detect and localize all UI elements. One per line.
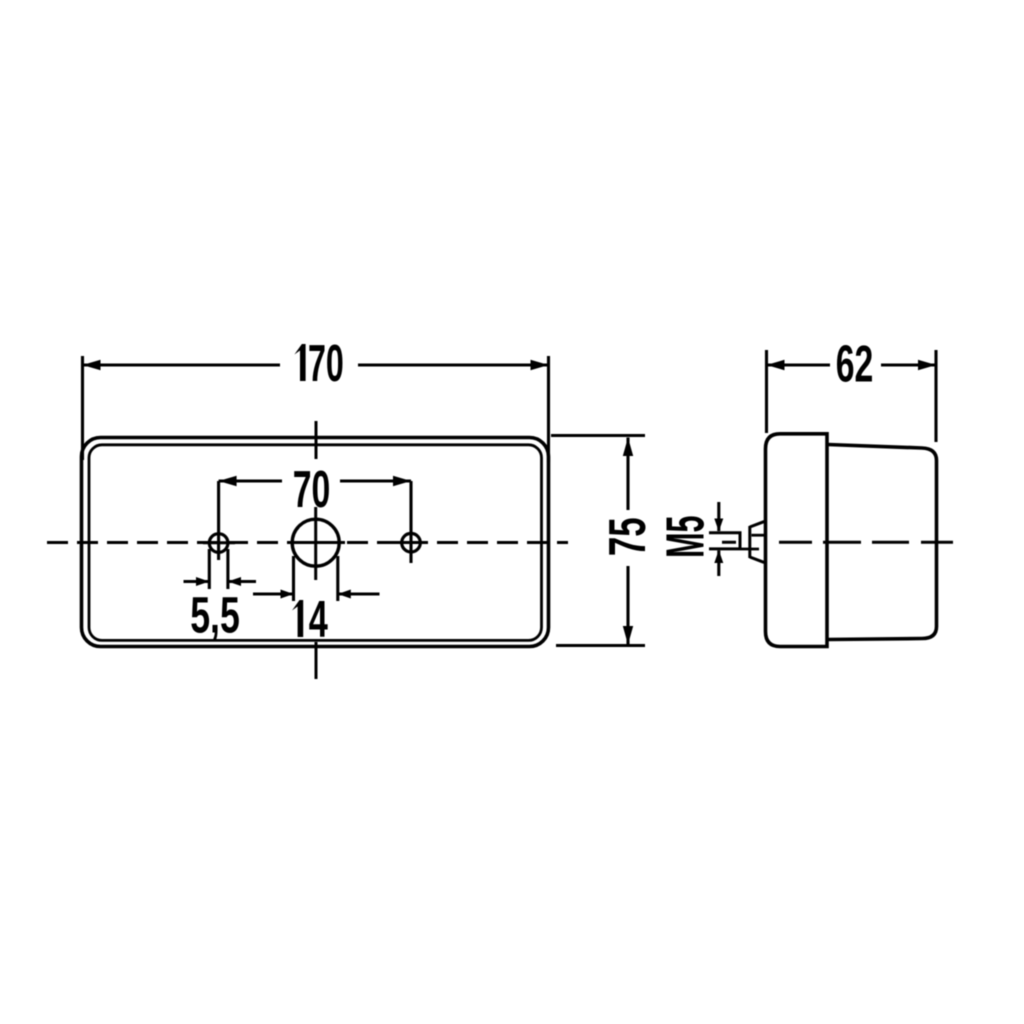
dimension 14 arrow left: [281, 590, 294, 599]
dimension 75 line: [626, 438, 629, 645]
dimension 75 arrow bottom: [623, 626, 633, 645]
center hole circle (14): [292, 519, 339, 566]
left hole cross: [203, 541, 235, 544]
dimension 5,5 line left: [184, 580, 210, 583]
dimension 170 extension line right: [547, 356, 550, 462]
dimension M5 arrow top (down): [714, 519, 723, 532]
dimension 14 line right: [338, 592, 380, 595]
right hole cross: [396, 541, 427, 544]
dimension 5,5 extension line left: [208, 549, 211, 589]
dimension 70 arrow right: [393, 476, 411, 486]
dimension M5 arrow bottom (up): [714, 550, 723, 563]
stud flange left bar: [748, 526, 751, 558]
lamp front view outer outline: [82, 438, 549, 647]
dimension 75 extension line bottom: [556, 644, 645, 647]
stud flange inner line bottom: [742, 548, 760, 551]
dimension 62 extension line right: [934, 350, 937, 442]
right mounting hole: [402, 533, 421, 552]
dimension 75 extension line top: [551, 434, 645, 437]
dimension 5,5 extension line right: [226, 549, 229, 589]
dimension 62 extension line left: [765, 350, 768, 433]
svg-text:70: 70: [293, 461, 331, 519]
dimension 170 arrow left: [83, 360, 101, 370]
side view lens outline: [766, 434, 828, 647]
dimension 170 text: [294, 344, 305, 381]
dimension 14 extension line left: [292, 556, 295, 601]
dimension M5 line bottom: [717, 551, 720, 577]
dimension 62 arrow left: [767, 360, 785, 370]
dimension 70 line: [219, 479, 411, 482]
center hole cross lines: [287, 507, 345, 580]
dimension 5,5 line right: [228, 580, 256, 583]
dimension 170 extension line left: [81, 356, 84, 460]
side view housing outline: [828, 445, 937, 640]
dimension 14 line left: [253, 592, 294, 595]
M5 stud end bar: [739, 532, 742, 551]
M5 stud top line: [709, 531, 742, 534]
stud flange top slant: [750, 522, 767, 527]
M5 stud bottom line: [709, 547, 742, 550]
dimension 70 extension line right (through right hole): [409, 481, 412, 563]
svg-text:M5: M5: [655, 516, 715, 558]
dimension 170 line: [83, 363, 549, 366]
lamp front view inner contour: [89, 445, 542, 641]
dimension 62 arrow right: [918, 360, 936, 370]
svg-text:75: 75: [599, 517, 657, 556]
dimension 5,5 arrow left: [196, 577, 209, 586]
left mounting hole (5.5): [209, 534, 228, 553]
dimension 14 arrow right: [338, 590, 351, 599]
dimension 170 arrow right: [531, 360, 549, 370]
dimension 14 text: [292, 600, 303, 637]
vertical centerline (front view): [315, 421, 318, 679]
stud flange inner line top: [752, 534, 767, 537]
dimension 70 extension line left (through left hole): [217, 481, 220, 560]
svg-text:5,5: 5,5: [190, 587, 240, 644]
dimension 75 arrow top: [623, 438, 633, 457]
svg-text:70: 70: [308, 335, 344, 393]
svg-text:62: 62: [836, 335, 874, 393]
dimension 5,5 arrow right: [228, 577, 241, 586]
horizontal centerline (front view): [47, 541, 568, 544]
dimension 14 extension line right: [336, 556, 339, 601]
dimension 70 arrow left: [219, 476, 237, 486]
stud flange bottom slant: [750, 557, 767, 562]
dimension M5 line top: [717, 502, 720, 531]
side view centerline: [722, 541, 953, 544]
svg-text:4: 4: [309, 591, 328, 649]
dimension 62 line: [767, 363, 937, 366]
